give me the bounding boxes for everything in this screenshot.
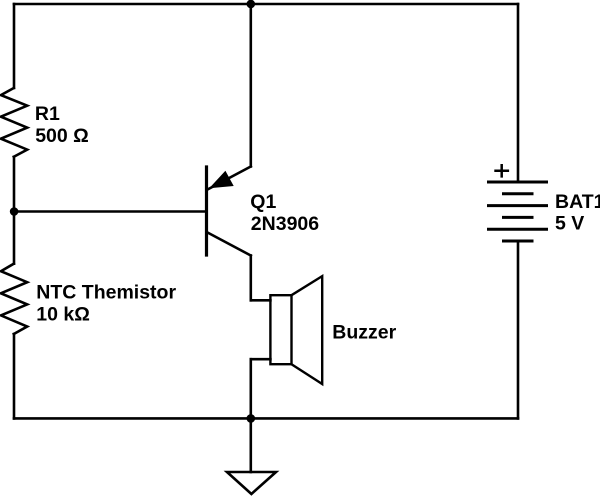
wire buzzer bottom lead	[251, 358, 271, 361]
wire bottom rail	[14, 417, 518, 420]
svg-text:2N3906: 2N3906	[251, 213, 319, 235]
battery BAT1 plate 6 short	[502, 240, 534, 243]
buzzer body	[270, 295, 291, 364]
node top junction	[247, 0, 256, 8]
node bottom junction	[247, 414, 256, 423]
wire buzzer top lead	[251, 299, 271, 302]
wire emitter vertical	[250, 4, 253, 167]
battery BAT1 plate 4 short	[502, 216, 534, 219]
wire base	[14, 210, 207, 213]
svg-text:Buzzer: Buzzer	[332, 322, 396, 344]
svg-text:Q1: Q1	[250, 191, 276, 213]
wire left rail lower	[13, 334, 16, 418]
svg-text:NTC Themistor: NTC Themistor	[36, 281, 176, 303]
buzzer cone	[292, 276, 323, 384]
wire collector vertical	[250, 256, 253, 301]
battery BAT1 plate 1 long	[487, 181, 548, 184]
node base junction	[10, 207, 19, 216]
svg-text:10 kΩ: 10 kΩ	[36, 303, 90, 325]
battery BAT1 plate 3 long	[487, 204, 548, 207]
transistor Q1 emitter arrow	[211, 172, 233, 188]
thermistor RT1	[1, 264, 27, 334]
svg-text:5 V: 5 V	[555, 212, 584, 234]
wire right rail lower	[517, 241, 520, 418]
wire emitter diagonal	[208, 167, 251, 190]
ground symbol	[227, 472, 276, 494]
wire ground stem	[250, 418, 253, 472]
wire left rail middle	[13, 157, 16, 264]
battery plus sign	[494, 164, 509, 178]
battery BAT1 plate 5 long	[487, 228, 548, 231]
wire top rail	[14, 3, 518, 6]
svg-text:BAT1: BAT1	[555, 191, 600, 213]
svg-text:R1: R1	[35, 103, 60, 125]
transistor Q1 base bar	[205, 167, 208, 255]
wire right rail upper	[517, 4, 520, 182]
wire collector diagonal	[208, 233, 251, 256]
battery BAT1 plate 2 short	[502, 192, 534, 195]
svg-text:500 Ω: 500 Ω	[35, 125, 89, 147]
wire buzzer to bottom rail	[250, 359, 253, 418]
resistor R1	[1, 88, 27, 157]
wire left rail upper	[13, 4, 16, 88]
